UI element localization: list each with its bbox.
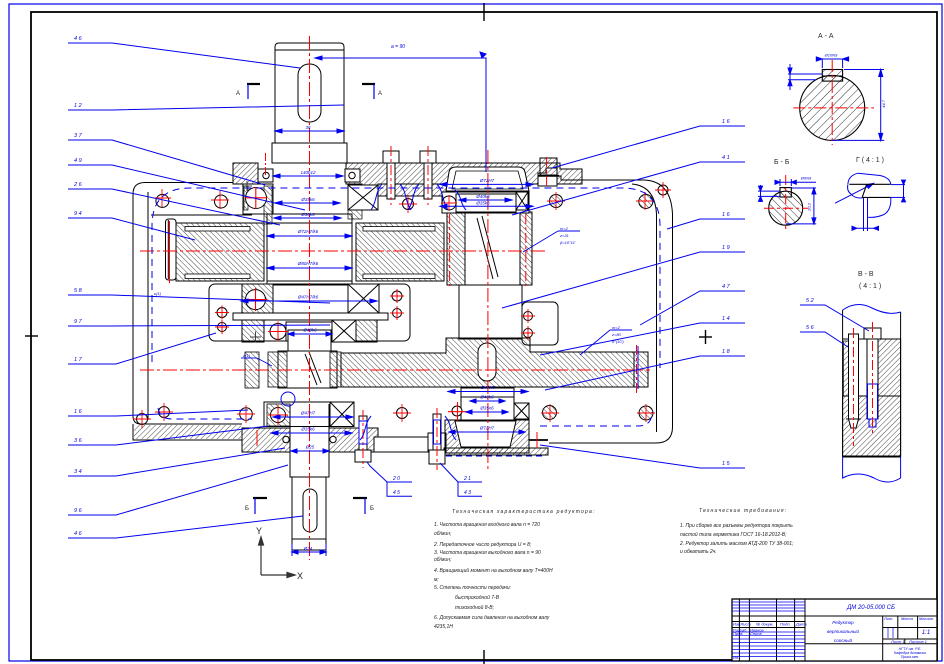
svg-text:Ø35k6: Ø35k6: [300, 427, 315, 432]
svg-text:Ин.: Ин.: [733, 655, 739, 660]
svg-text:z=80: z=80: [611, 332, 622, 337]
svg-text:А: А: [236, 91, 240, 97]
svg-text:Ø72H7/k6: Ø72H7/k6: [297, 229, 319, 234]
svg-text:1 6: 1 6: [722, 119, 731, 125]
svg-text:Масса: Масса: [901, 616, 914, 621]
svg-text:Листов 1: Листов 1: [908, 639, 927, 644]
svg-text:1 6: 1 6: [722, 212, 731, 218]
svg-text:X: X: [297, 571, 303, 581]
svg-text:Ø47H7/k6: Ø47H7/k6: [297, 295, 319, 300]
svg-text:Ø72H7: Ø72H7: [479, 426, 495, 431]
svg-text:5 6: 5 6: [806, 325, 815, 331]
svg-text:Y: Y: [256, 526, 262, 536]
svg-text:Ø35k6: Ø35k6: [475, 201, 490, 206]
svg-text:4 3: 4 3: [464, 490, 471, 496]
svg-text:Лист: Лист: [740, 622, 752, 627]
svg-text:пастой типа герметика ГОСТ 16-: пастой типа герметика ГОСТ 16-18.2012-В;: [680, 531, 787, 538]
svg-text:4. Вращающий момент на выходно: 4. Вращающий момент на выходном валу Т=4…: [434, 567, 553, 574]
svg-text:m=2: m=2: [560, 226, 569, 231]
svg-text:а = 90: а = 90: [391, 44, 405, 50]
svg-text:1:1: 1:1: [922, 630, 930, 636]
svg-text:Б - Б: Б - Б: [774, 159, 790, 166]
svg-text:А: А: [378, 91, 382, 97]
svg-text:9 7: 9 7: [74, 319, 83, 325]
svg-text:4 5: 4 5: [393, 490, 400, 496]
svg-text:5 8: 5 8: [74, 288, 83, 294]
svg-text:8°(10'): 8°(10'): [612, 339, 624, 344]
svg-text:2. Передаточное число редуктор: 2. Передаточное число редуктора U = 8;: [433, 542, 532, 548]
svg-text:1 9: 1 9: [722, 245, 730, 251]
svg-text:44,7: 44,7: [881, 99, 886, 108]
svg-text:2. Редуктор залить маслом АТД-: 2. Редуктор залить маслом АТД-200 ТУ 38-…: [679, 541, 794, 547]
svg-text:А - А: А - А: [818, 33, 834, 40]
svg-text:об/мин;: об/мин;: [434, 531, 452, 537]
svg-text:Ø47H7: Ø47H7: [300, 411, 316, 416]
svg-text:9 4: 9 4: [74, 211, 82, 217]
svg-text:Техническая характеристика ред: Техническая характеристика редуктора:: [452, 509, 596, 515]
svg-text:Ø6N9: Ø6N9: [800, 176, 812, 181]
svg-text:Ø25: Ø25: [305, 445, 315, 450]
svg-text:36: 36: [305, 125, 311, 130]
svg-text:быстроходной 7-В: быстроходной 7-В: [455, 594, 500, 601]
svg-text:4 7: 4 7: [722, 284, 731, 290]
svg-text:1 2: 1 2: [74, 103, 82, 109]
svg-text:2 0: 2 0: [392, 476, 400, 482]
svg-text:Лит.: Лит.: [883, 616, 893, 621]
svg-text:1 7: 1 7: [74, 357, 83, 363]
svg-text:Г ( 4 : 1 ): Г ( 4 : 1 ): [856, 157, 884, 164]
svg-text:m=2: m=2: [612, 325, 621, 330]
svg-text:Серов: Серов: [750, 631, 762, 636]
svg-text:2 6: 2 6: [73, 182, 83, 188]
svg-text:9 6: 9 6: [74, 508, 83, 514]
svg-text:и обкатать 2ч.: и обкатать 2ч.: [680, 549, 717, 555]
svg-text:4 1: 4 1: [722, 155, 730, 161]
svg-text:Б: Б: [245, 506, 249, 512]
svg-text:1 5: 1 5: [722, 461, 731, 467]
svg-text:Прикл.мех.: Прикл.мех.: [901, 655, 919, 659]
svg-text:z=31: z=31: [559, 233, 569, 238]
svg-text:3 4: 3 4: [74, 469, 82, 475]
svg-text:Редуктор: Редуктор: [832, 620, 854, 625]
svg-text:м;: м;: [434, 577, 439, 583]
svg-text:5. Степень точности передачи:: 5. Степень точности передачи:: [434, 585, 512, 591]
svg-text:z(1): z(1): [242, 353, 251, 358]
svg-text:Ø40k6: Ø40k6: [302, 328, 317, 333]
svg-text:4 9: 4 9: [74, 158, 82, 164]
svg-text:Масшт.: Масшт.: [919, 616, 934, 621]
svg-text:3 6: 3 6: [74, 438, 83, 444]
svg-text:Ø80H7/k6: Ø80H7/k6: [297, 261, 319, 266]
svg-text:Технические требования:: Технические требования:: [699, 508, 787, 514]
svg-text:β=10°11': β=10°11': [559, 240, 576, 245]
svg-text:( 4 : 1 ): ( 4 : 1 ): [859, 283, 881, 290]
svg-text:Ø30k6: Ø30k6: [300, 212, 315, 217]
svg-text:Пров.: Пров.: [733, 631, 744, 636]
svg-text:Ø24: Ø24: [303, 546, 313, 551]
svg-text:Подп.: Подп.: [780, 622, 791, 627]
svg-text:4235,1Н: 4235,1Н: [434, 624, 453, 630]
svg-text:Ø72H7: Ø72H7: [479, 178, 495, 183]
svg-text:140h12: 140h12: [300, 170, 316, 175]
svg-text:2 1: 2 1: [463, 476, 471, 482]
svg-text:Ø35x6: Ø35x6: [479, 406, 494, 411]
svg-text:5 2: 5 2: [806, 298, 814, 304]
svg-text:1 6: 1 6: [74, 409, 83, 415]
svg-text:Лист 1: Лист 1: [890, 639, 905, 644]
svg-text:3. Частота вращения выходного: 3. Частота вращения выходного вала n = 9…: [434, 550, 541, 556]
svg-text:1. При сборке все разъемы реду: 1. При сборке все разъемы редуктора покр…: [680, 523, 793, 529]
svg-text:№ докум.: № докум.: [756, 622, 774, 627]
svg-text:1 4: 1 4: [722, 316, 730, 322]
svg-text:ДМ 20-05.000 СБ: ДМ 20-05.000 СБ: [846, 605, 895, 611]
svg-text:Б: Б: [370, 506, 374, 512]
svg-text:Ø40k6: Ø40k6: [479, 395, 494, 400]
svg-text:соосный: соосный: [834, 637, 853, 643]
svg-text:4 6: 4 6: [74, 36, 83, 42]
svg-text:20,2: 20,2: [807, 202, 812, 212]
svg-text:об/мин;: об/мин;: [434, 557, 452, 563]
svg-text:Дата: Дата: [795, 622, 807, 627]
svg-text:Ø40k6: Ø40k6: [475, 194, 490, 199]
svg-text:1. Частота вращения входного в: 1. Частота вращения входного вала n = 72…: [434, 522, 540, 528]
svg-text:6. Допускаемая сила давления н: 6. Допускаемая сила давления на выходном…: [434, 615, 550, 621]
svg-text:Ø47H7: Ø47H7: [480, 385, 496, 390]
svg-text:вертикальный: вертикальный: [827, 628, 859, 634]
svg-text:Ø10N9: Ø10N9: [824, 53, 838, 58]
svg-text:и(1): и(1): [154, 291, 162, 296]
svg-text:Ø35k6: Ø35k6: [300, 197, 315, 202]
svg-text:тихоходной 8-В;: тихоходной 8-В;: [455, 604, 495, 611]
svg-text:1 8: 1 8: [722, 349, 731, 355]
svg-text:3 7: 3 7: [74, 133, 83, 139]
svg-text:В - В: В - В: [858, 271, 874, 278]
svg-text:4 6: 4 6: [74, 531, 83, 537]
